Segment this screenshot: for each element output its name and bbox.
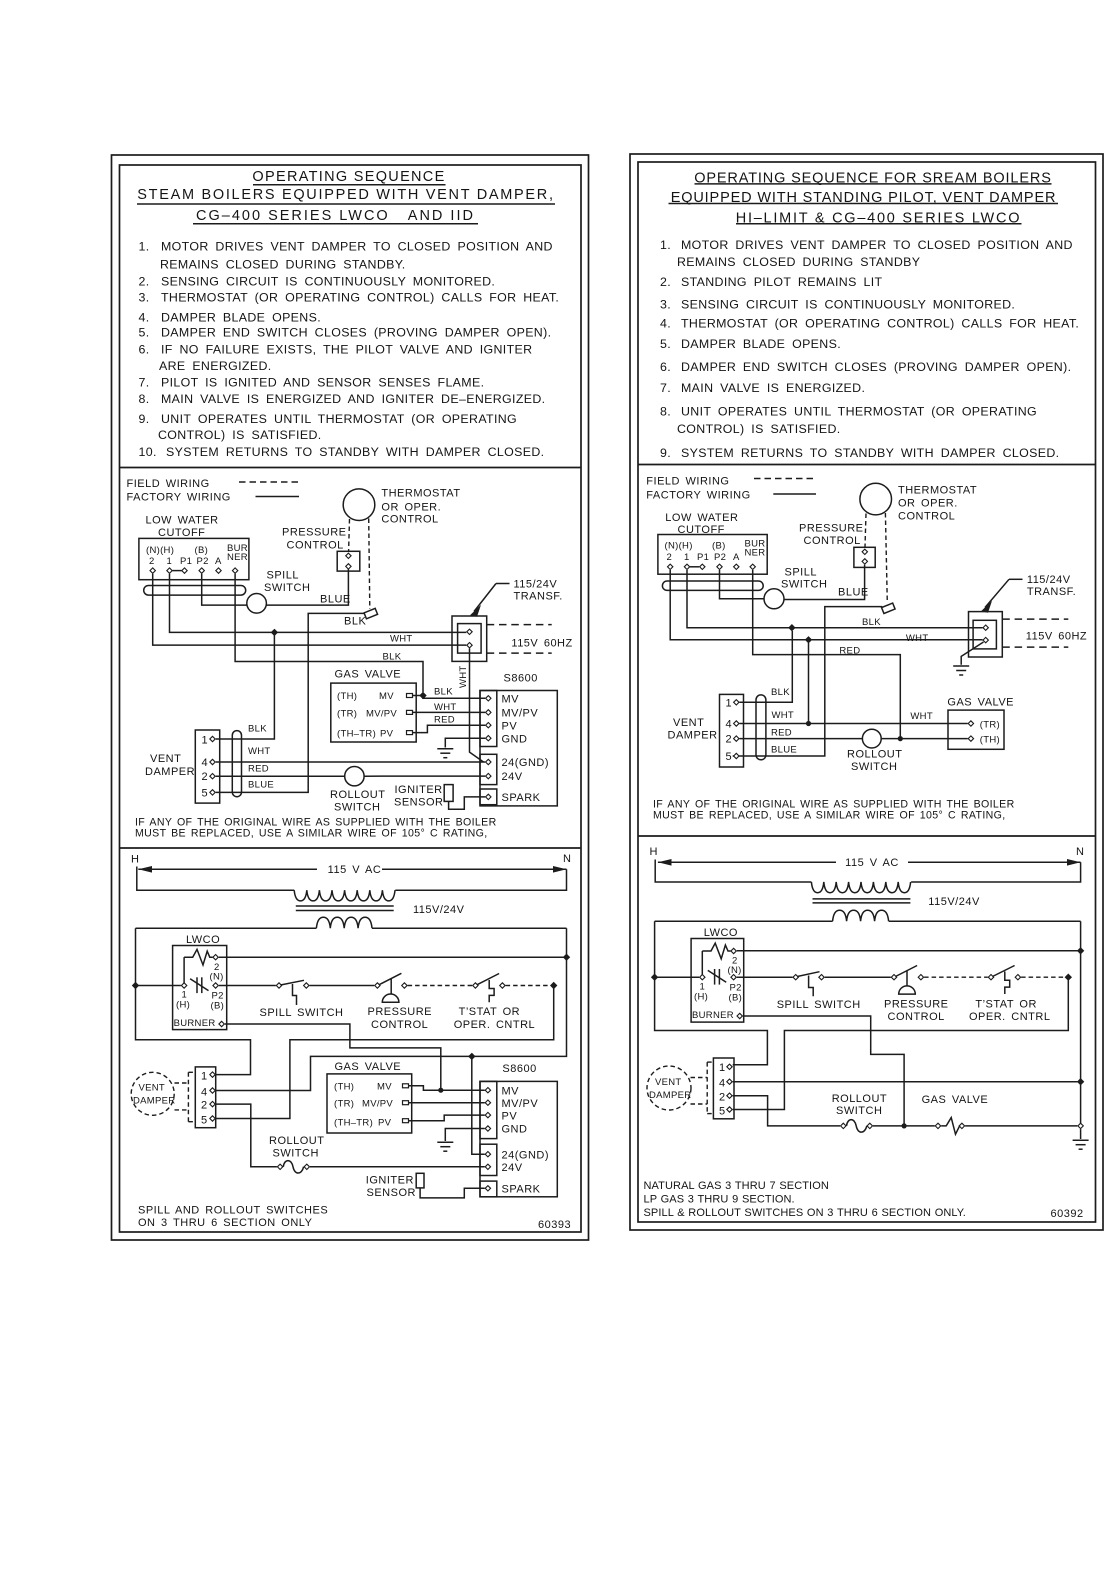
- MV/PV wire (WHT): [413, 711, 486, 713]
- rollout switch (ladder): [277, 1164, 282, 1169]
- wire N down to primary (right): [911, 862, 1081, 882]
- svg-text:BLK: BLK: [248, 724, 267, 735]
- secondary leads (right): [655, 920, 833, 922]
- svg-text:GAS VALVE: GAS VALVE: [947, 697, 1014, 709]
- wire from terminal 2 down (WHT): [153, 574, 467, 645]
- svg-text:PILOT IS IGNITED AND SENSOR SE: PILOT IS IGNITED AND SENSOR SENSES FLAME…: [161, 376, 484, 390]
- cable loop oval (right upper): [662, 581, 763, 590]
- svg-text:BLUE: BLUE: [838, 587, 869, 599]
- LWCO float zigzag (right): [702, 943, 730, 959]
- wire H down to primary (right): [655, 860, 811, 883]
- MV wire with junction dot: [409, 1086, 485, 1090]
- svg-text:DAMPER END SWITCH CLOSES (PROV: DAMPER END SWITCH CLOSES (PROVING DAMPER…: [681, 360, 1071, 374]
- svg-text:6.: 6.: [660, 360, 671, 374]
- t'stat feed down to vent damper 5: [216, 986, 554, 1119]
- svg-text:60392: 60392: [1051, 1208, 1084, 1220]
- wire nut (right): [882, 603, 896, 613]
- svg-text:MOTOR DRIVES VENT DAMPER TO CL: MOTOR DRIVES VENT DAMPER TO CLOSED POSIT…: [681, 238, 1073, 252]
- svg-text:DAMPER BLADE OPENS.: DAMPER BLADE OPENS.: [681, 337, 841, 351]
- transformer box (right upper): [969, 612, 1003, 657]
- svg-text:(N): (N): [728, 965, 742, 976]
- dashed pressure to t'stat: [408, 985, 473, 987]
- svg-text:MV: MV: [502, 694, 520, 706]
- svg-text:WHT: WHT: [248, 746, 271, 757]
- dashed t'stat to junction (right): [1021, 976, 1065, 978]
- svg-text:MV/PV: MV/PV: [502, 708, 539, 720]
- MV wire w junction (BLK): [413, 696, 486, 699]
- svg-text:2: 2: [201, 1100, 208, 1112]
- svg-text:24V: 24V: [502, 1162, 523, 1174]
- svg-text:SWITCH: SWITCH: [273, 1148, 319, 1160]
- wire rollout to 24V: [310, 1166, 485, 1168]
- svg-text:WHT: WHT: [772, 710, 795, 721]
- svg-text:IF NO FAILURE EXISTS, THE PILO: IF NO FAILURE EXISTS, THE PILOT VALVE AN…: [161, 343, 532, 357]
- svg-text:H: H: [650, 846, 658, 858]
- svg-text:NATURAL GAS 3 THRU 7 SECTION: NATURAL GAS 3 THRU 7 SECTION: [644, 1180, 829, 1192]
- pressure control switch (right ladder): [891, 975, 896, 980]
- wire from terminal 1 down (BLK): [170, 574, 467, 633]
- svg-text:1: 1: [202, 735, 209, 747]
- WHT wire transformer down to 24(GND): [470, 648, 484, 762]
- left separator between diagrams: [120, 847, 582, 849]
- svg-text:P2: P2: [714, 552, 726, 563]
- spill switch circle (right upper): [764, 589, 784, 609]
- svg-text:2.: 2.: [139, 275, 150, 289]
- svg-text:BLUE: BLUE: [248, 780, 274, 791]
- svg-text:3.: 3.: [660, 297, 671, 311]
- right panel outer border: [630, 154, 1103, 1230]
- svg-text:SPARK: SPARK: [502, 792, 541, 804]
- svg-text:GND: GND: [502, 734, 528, 746]
- ground at rail bottom: [1080, 1129, 1082, 1139]
- svg-text:5.: 5.: [139, 326, 150, 340]
- wire P2 down to spill switch: [720, 570, 765, 599]
- svg-text:BLUE: BLUE: [771, 745, 797, 756]
- svg-text:WHT: WHT: [910, 711, 933, 722]
- LWCO terminals (right upper): [668, 564, 673, 569]
- right separator under list: [638, 464, 1096, 466]
- svg-text:115V 60HZ: 115V 60HZ: [511, 638, 572, 650]
- wire from BURNER terminal down (BLK feed): [235, 574, 423, 693]
- svg-text:OR OPER.: OR OPER.: [381, 502, 441, 514]
- svg-text:WHT: WHT: [458, 665, 469, 688]
- svg-text:WHT: WHT: [434, 702, 457, 713]
- thermostat circle (left upper): [343, 489, 375, 521]
- svg-text:3.: 3.: [139, 291, 150, 305]
- LWCO terminals (left upper): [150, 568, 155, 573]
- svg-text:MV: MV: [502, 1086, 520, 1098]
- wire junction down to vent damper 1: [216, 632, 275, 739]
- svg-text:1: 1: [167, 556, 173, 567]
- terminal 2: [213, 955, 218, 960]
- thermostat circle (right upper): [860, 483, 892, 515]
- svg-text:SWITCH: SWITCH: [851, 761, 897, 773]
- 115V 60HZ field wiring dashes (right): [1002, 618, 1068, 620]
- svg-text:LWCO: LWCO: [186, 934, 220, 946]
- svg-text:1: 1: [726, 698, 733, 710]
- RED wire terminal 2 to rollout switch: [216, 775, 345, 777]
- gas valve box (left upper): [331, 683, 416, 742]
- svg-text:SPILL SWITCH: SPILL SWITCH: [260, 1007, 344, 1019]
- wire from P2 down to spill switch: [202, 574, 247, 605]
- svg-text:THERMOSTAT (OR OPERATING CONTR: THERMOSTAT (OR OPERATING CONTROL) CALLS …: [161, 291, 559, 305]
- svg-text:(TH): (TH): [334, 1082, 354, 1093]
- wire nut: [364, 608, 378, 618]
- vent damper circle (ladder): [131, 1072, 174, 1115]
- dashed t'stat wire to pressure control: [865, 514, 866, 548]
- 115 V AC arrow line (right): [658, 861, 836, 863]
- left list: [139, 240, 560, 460]
- S8600 box (left upper): [480, 691, 557, 806]
- svg-text:115V 60HZ: 115V 60HZ: [1026, 631, 1087, 643]
- svg-text:TRANSF.: TRANSF.: [514, 591, 563, 603]
- gas valve symbol (right ladder): [935, 1123, 940, 1128]
- wire rollout to gas valve (right): [873, 1125, 935, 1127]
- t'stat feed down to vent damper 5 (right): [733, 977, 1069, 1109]
- BLK wire terminal 1 up to junction: [740, 631, 793, 702]
- RED wire terminal 2 to rollout: [740, 738, 863, 740]
- svg-text:SWITCH: SWITCH: [334, 802, 380, 814]
- svg-text:ROLLOUT: ROLLOUT: [832, 1093, 887, 1105]
- wire 24(GND) drop: [472, 1056, 485, 1154]
- svg-text:1.: 1.: [660, 238, 671, 252]
- LWCO contact bars + slash (right): [714, 969, 716, 985]
- svg-text:MV/PV: MV/PV: [366, 709, 397, 720]
- svg-text:2: 2: [149, 556, 155, 567]
- rollout to (TH) wire: [881, 738, 968, 740]
- junction 24(GND) drop: [469, 1053, 475, 1059]
- svg-text:115 V AC: 115 V AC: [328, 864, 382, 876]
- svg-text:LWCO: LWCO: [704, 927, 738, 939]
- svg-text:8.: 8.: [660, 404, 671, 418]
- svg-text:S8600: S8600: [502, 1063, 536, 1075]
- svg-text:THERMOSTAT: THERMOSTAT: [381, 488, 460, 500]
- svg-text:(B): (B): [211, 1001, 225, 1012]
- svg-text:CONTROL: CONTROL: [898, 511, 955, 523]
- WHT junction drop: [808, 643, 810, 724]
- pressure control box (left upper): [337, 551, 360, 571]
- svg-text:(B): (B): [729, 993, 743, 1004]
- svg-text:MUST BE REPLACED, USE A SIMILA: MUST BE REPLACED, USE A SIMILAR WIRE OF …: [653, 810, 1006, 822]
- svg-text:9.: 9.: [660, 446, 671, 460]
- gas valve box (right upper): [948, 710, 1004, 749]
- svg-text:(TR): (TR): [980, 720, 1000, 731]
- svg-text:MV/PV: MV/PV: [502, 1098, 539, 1110]
- rollout switch circle (left upper): [345, 767, 364, 786]
- svg-text:2: 2: [202, 771, 209, 783]
- svg-text:1: 1: [719, 1062, 726, 1074]
- svg-text:SPILL: SPILL: [785, 567, 817, 579]
- svg-text:(H): (H): [176, 1000, 190, 1011]
- svg-text:4.: 4.: [139, 310, 150, 324]
- svg-text:ROLLOUT: ROLLOUT: [330, 789, 385, 801]
- svg-text:1: 1: [684, 552, 690, 563]
- svg-text:24(GND): 24(GND): [502, 757, 550, 769]
- vent damper connector box (ladder): [195, 1067, 215, 1128]
- svg-text:115V/24V: 115V/24V: [928, 896, 980, 908]
- terminal 1 / P2: [181, 983, 186, 988]
- svg-text:CONTROL: CONTROL: [804, 535, 861, 547]
- svg-text:(B): (B): [195, 545, 209, 556]
- secondary leads: [136, 927, 317, 929]
- jumper wire 1-P1: [690, 566, 699, 568]
- spill switch (ladder): [276, 983, 281, 988]
- svg-text:SPILL & ROLLOUT SWITCHES ON 3: SPILL & ROLLOUT SWITCHES ON 3 THRU 6 SEC…: [644, 1207, 966, 1219]
- left panel outer border: [112, 155, 589, 1240]
- svg-text:BLK: BLK: [771, 687, 790, 698]
- svg-text:DAMPER: DAMPER: [668, 730, 718, 742]
- svg-text:OPER. CNTRL: OPER. CNTRL: [969, 1011, 1050, 1023]
- svg-text:N: N: [1076, 846, 1084, 858]
- svg-text:RED: RED: [771, 728, 792, 739]
- right panel inner border: [638, 162, 1096, 1222]
- PV wire: [409, 1115, 485, 1121]
- svg-text:4: 4: [202, 757, 209, 769]
- svg-text:(N)(H): (N)(H): [146, 545, 174, 556]
- svg-text:BLK: BLK: [434, 687, 453, 698]
- svg-text:VENT: VENT: [139, 1083, 166, 1094]
- svg-text:OR OPER.: OR OPER.: [898, 498, 958, 510]
- dashed t'stat wire to wire nut: [885, 513, 887, 603]
- vent damper dashed bracket: [175, 1082, 189, 1084]
- rollout switch (right ladder): [841, 1123, 846, 1128]
- vent damper connector box (left upper): [195, 730, 219, 803]
- svg-text:(TH–TR): (TH–TR): [337, 729, 376, 740]
- svg-text:SWITCH: SWITCH: [836, 1105, 882, 1117]
- right panel footer notes: [644, 1180, 966, 1219]
- svg-text:BLK: BLK: [344, 616, 366, 628]
- svg-text:6.: 6.: [139, 343, 150, 357]
- spill switch (right ladder): [793, 975, 798, 980]
- svg-text:SENSOR: SENSOR: [367, 1187, 416, 1199]
- svg-text:CONTROL) IS SATISFIED.: CONTROL) IS SATISFIED.: [677, 422, 841, 436]
- svg-text:PV: PV: [380, 729, 394, 740]
- svg-text:DAMPER: DAMPER: [145, 766, 195, 778]
- right rail (right panel): [1080, 921, 1082, 1126]
- t'stat switch (right ladder): [988, 975, 993, 980]
- svg-text:ON 3 THRU 6 SECTION ONLY: ON 3 THRU 6 SECTION ONLY: [138, 1217, 313, 1229]
- WHT wire terminal 2 to transformer: [670, 570, 982, 640]
- svg-text:SPILL: SPILL: [267, 570, 299, 582]
- transformer primary winding: [294, 890, 395, 901]
- left panel inner border: [120, 165, 582, 1232]
- svg-text:THERMOSTAT: THERMOSTAT: [898, 485, 977, 497]
- svg-text:THERMOSTAT (OR OPERATING CONTR: THERMOSTAT (OR OPERATING CONTROL) CALLS …: [681, 317, 1079, 331]
- svg-text:VENT: VENT: [150, 753, 181, 765]
- svg-text:8.: 8.: [139, 392, 150, 406]
- right list: [660, 238, 1079, 460]
- svg-text:MV: MV: [379, 691, 394, 702]
- svg-text:SYSTEM RETURNS TO STANDBY WITH: SYSTEM RETURNS TO STANDBY WITH DAMPER CL…: [166, 445, 544, 459]
- svg-text:115/24V: 115/24V: [514, 579, 558, 591]
- svg-text:PV: PV: [502, 721, 518, 733]
- dashed pressure to t'stat (right): [924, 976, 988, 978]
- svg-text:(TH): (TH): [980, 735, 1000, 746]
- cable loop oval (left upper): [144, 586, 246, 596]
- LWCO terminal box (left upper): [139, 538, 249, 579]
- 115V 60HZ field wiring dashes: [487, 624, 552, 626]
- svg-text:4: 4: [726, 719, 733, 731]
- svg-text:BLK: BLK: [862, 617, 881, 628]
- svg-text:T’STAT OR: T’STAT OR: [459, 1006, 520, 1018]
- t'stat switch (ladder): [473, 983, 478, 988]
- left rail (right panel): [655, 921, 768, 1065]
- ground from GND pin (ladder): [445, 1129, 484, 1142]
- svg-text:(TR): (TR): [334, 1099, 354, 1110]
- BLUE wire from vent damper 5 to wire nut: [216, 613, 365, 792]
- junction right rail / terminal 2 wire: [564, 954, 570, 960]
- wire terminal 2 to rollout (right): [733, 1096, 840, 1126]
- svg-text:5: 5: [726, 751, 733, 763]
- svg-text:(TH–TR): (TH–TR): [334, 1118, 373, 1129]
- svg-text:WHT: WHT: [906, 633, 929, 644]
- transformer ground lead: [961, 642, 983, 665]
- cable loop oval (left vent damper): [232, 731, 241, 797]
- pressure control box (right upper): [854, 547, 875, 567]
- svg-text:N: N: [563, 853, 571, 865]
- svg-text:1.: 1.: [139, 240, 150, 254]
- spill switch circle (left upper): [247, 594, 267, 614]
- rollout to 24V wire: [364, 775, 485, 777]
- svg-text:STEAM BOILERS EQUIPPED WITH VE: STEAM BOILERS EQUIPPED WITH VENT DAMPER,: [137, 187, 554, 203]
- LWCO contact bars + slash: [196, 977, 198, 993]
- svg-text:WHT: WHT: [390, 634, 413, 645]
- BURNER feed wire: [225, 1024, 441, 1090]
- svg-text:2: 2: [667, 552, 673, 563]
- svg-text:(B): (B): [712, 541, 726, 552]
- transformer core: [296, 905, 394, 907]
- right separator between diagrams: [638, 835, 1096, 837]
- left panel footer notes: [138, 1205, 571, 1232]
- svg-text:SPILL SWITCH: SPILL SWITCH: [777, 999, 861, 1011]
- wire terminal 2 to right rail (right): [737, 950, 1081, 952]
- svg-text:RED: RED: [248, 764, 269, 775]
- svg-text:PRESSURE: PRESSURE: [282, 527, 347, 539]
- svg-text:RED: RED: [839, 646, 860, 657]
- svg-text:SWITCH: SWITCH: [264, 582, 310, 594]
- wire H down to primary: [137, 867, 294, 891]
- junction on BLK wire: [271, 629, 277, 635]
- wire terminal 2 to rollout: [216, 1104, 277, 1167]
- rail H to LWCO 1 (right): [655, 976, 700, 978]
- svg-text:A: A: [215, 556, 222, 567]
- svg-text:P2: P2: [197, 556, 209, 567]
- transformer secondary winding: [316, 917, 372, 928]
- wire terminal 2 to right rail: [219, 956, 567, 958]
- wire N down to primary: [395, 869, 566, 890]
- BLUE wire spill to pressure control: [784, 565, 865, 600]
- cable loop oval (right vent damper): [756, 695, 766, 760]
- LWCO internal vertical: [183, 957, 185, 985]
- svg-text:5: 5: [719, 1106, 726, 1118]
- S8600 box (ladder): [480, 1081, 557, 1196]
- svg-text:CONTROL: CONTROL: [287, 540, 344, 552]
- svg-text:FACTORY WIRING: FACTORY WIRING: [646, 490, 750, 502]
- svg-text:T’STAT OR: T’STAT OR: [975, 999, 1037, 1011]
- svg-text:(TR): (TR): [337, 709, 357, 720]
- svg-text:MAIN VALVE IS ENERGIZED AND IG: MAIN VALVE IS ENERGIZED AND IGNITER DE–E…: [161, 392, 545, 406]
- svg-text:LOW WATER: LOW WATER: [665, 512, 738, 524]
- svg-text:GAS VALVE: GAS VALVE: [335, 1061, 402, 1073]
- svg-text:4: 4: [719, 1078, 726, 1090]
- svg-text:7.: 7.: [660, 381, 671, 395]
- LWCO internal vertical (right): [701, 951, 703, 977]
- svg-text:NER: NER: [227, 552, 248, 563]
- dashed t'stat wire to pressure control: [348, 519, 351, 551]
- svg-text:REMAINS CLOSED DURING STANDBY.: REMAINS CLOSED DURING STANDBY.: [160, 258, 406, 272]
- svg-text:DAMPER END SWITCH CLOSES (PROV: DAMPER END SWITCH CLOSES (PROVING DAMPER…: [161, 326, 551, 340]
- svg-text:GND: GND: [502, 1124, 528, 1136]
- svg-text:P1: P1: [180, 556, 192, 567]
- svg-text:24V: 24V: [502, 771, 523, 783]
- svg-text:115 V AC: 115 V AC: [845, 857, 899, 869]
- BLK wire terminal 1 to transformer: [687, 570, 983, 628]
- svg-text:GAS VALVE: GAS VALVE: [922, 1094, 989, 1106]
- svg-text:UNIT OPERATES UNTIL THERMOSTAT: UNIT OPERATES UNTIL THERMOSTAT (OR OPERA…: [161, 412, 517, 426]
- dashed t'stat wire to wire nut: [369, 519, 370, 610]
- svg-text:BLK: BLK: [383, 652, 402, 663]
- svg-text:4: 4: [201, 1087, 208, 1099]
- svg-text:ROLLOUT: ROLLOUT: [269, 1135, 324, 1147]
- left bottom note (upper diagram): [135, 817, 497, 840]
- right rail: [216, 928, 567, 1090]
- svg-text:DAMPER: DAMPER: [133, 1096, 175, 1107]
- svg-text:(N): (N): [210, 972, 224, 983]
- svg-text:STANDING PILOT REMAINS LIT: STANDING PILOT REMAINS LIT: [681, 275, 883, 289]
- svg-text:NER: NER: [745, 548, 766, 559]
- rail P2 to spill switch: [219, 985, 276, 987]
- svg-text:OPER. CNTRL: OPER. CNTRL: [454, 1019, 535, 1031]
- svg-text:(H): (H): [694, 992, 708, 1003]
- svg-text:CUTOFF: CUTOFF: [158, 527, 205, 539]
- BURNER feed wire (right): [743, 1016, 904, 1126]
- svg-text:MOTOR DRIVES VENT DAMPER TO CL: MOTOR DRIVES VENT DAMPER TO CLOSED POSIT…: [161, 240, 553, 254]
- svg-text:MUST BE REPLACED, USE A SIMILA: MUST BE REPLACED, USE A SIMILAR WIRE OF …: [135, 828, 488, 840]
- svg-text:OPERATING SEQUENCE: OPERATING SEQUENCE: [252, 169, 445, 185]
- svg-text:115V/24V: 115V/24V: [413, 904, 465, 916]
- svg-text:LP GAS 3 THRU 9 SECTION.: LP GAS 3 THRU 9 SECTION.: [644, 1194, 795, 1206]
- MV/PV wire: [409, 1102, 485, 1104]
- BURNER wire down (RED): [753, 570, 901, 739]
- svg-text:SPILL AND ROLLOUT SWITCHES: SPILL AND ROLLOUT SWITCHES: [138, 1205, 328, 1217]
- svg-text:P1: P1: [697, 552, 709, 563]
- dashed t'stat to junction: [506, 985, 551, 987]
- svg-text:S8600: S8600: [504, 673, 538, 685]
- left rail: [136, 928, 251, 1074]
- svg-text:60393: 60393: [538, 1219, 571, 1231]
- svg-text:DAMPER: DAMPER: [649, 1090, 691, 1101]
- svg-text:SPARK: SPARK: [502, 1184, 541, 1196]
- svg-text:CONTROL: CONTROL: [371, 1019, 428, 1031]
- WHT wire terminal 4 to gas valve (TR): [740, 723, 968, 725]
- transformer secondary winding (right): [833, 910, 889, 921]
- svg-text:9.: 9.: [139, 412, 150, 426]
- wire spill to pressure control: [310, 985, 375, 987]
- left title: [137, 169, 555, 224]
- svg-text:7.: 7.: [139, 376, 150, 390]
- svg-text:4.: 4.: [660, 317, 671, 331]
- gas valve box (ladder): [327, 1074, 412, 1133]
- svg-text:REMAINS CLOSED DURING STANDBY: REMAINS CLOSED DURING STANDBY: [677, 255, 920, 269]
- svg-text:2: 2: [719, 1092, 726, 1104]
- vent damper connector box (right ladder): [713, 1058, 734, 1119]
- LWCO float zigzag: [184, 949, 213, 965]
- svg-text:IGNITER: IGNITER: [395, 784, 443, 796]
- BLUE wire spill to pressure control: [266, 569, 348, 605]
- svg-text:SWITCH: SWITCH: [781, 579, 827, 591]
- svg-text:MAIN VALVE IS ENERGIZED.: MAIN VALVE IS ENERGIZED.: [681, 381, 865, 395]
- svg-text:GAS VALVE: GAS VALVE: [335, 669, 402, 681]
